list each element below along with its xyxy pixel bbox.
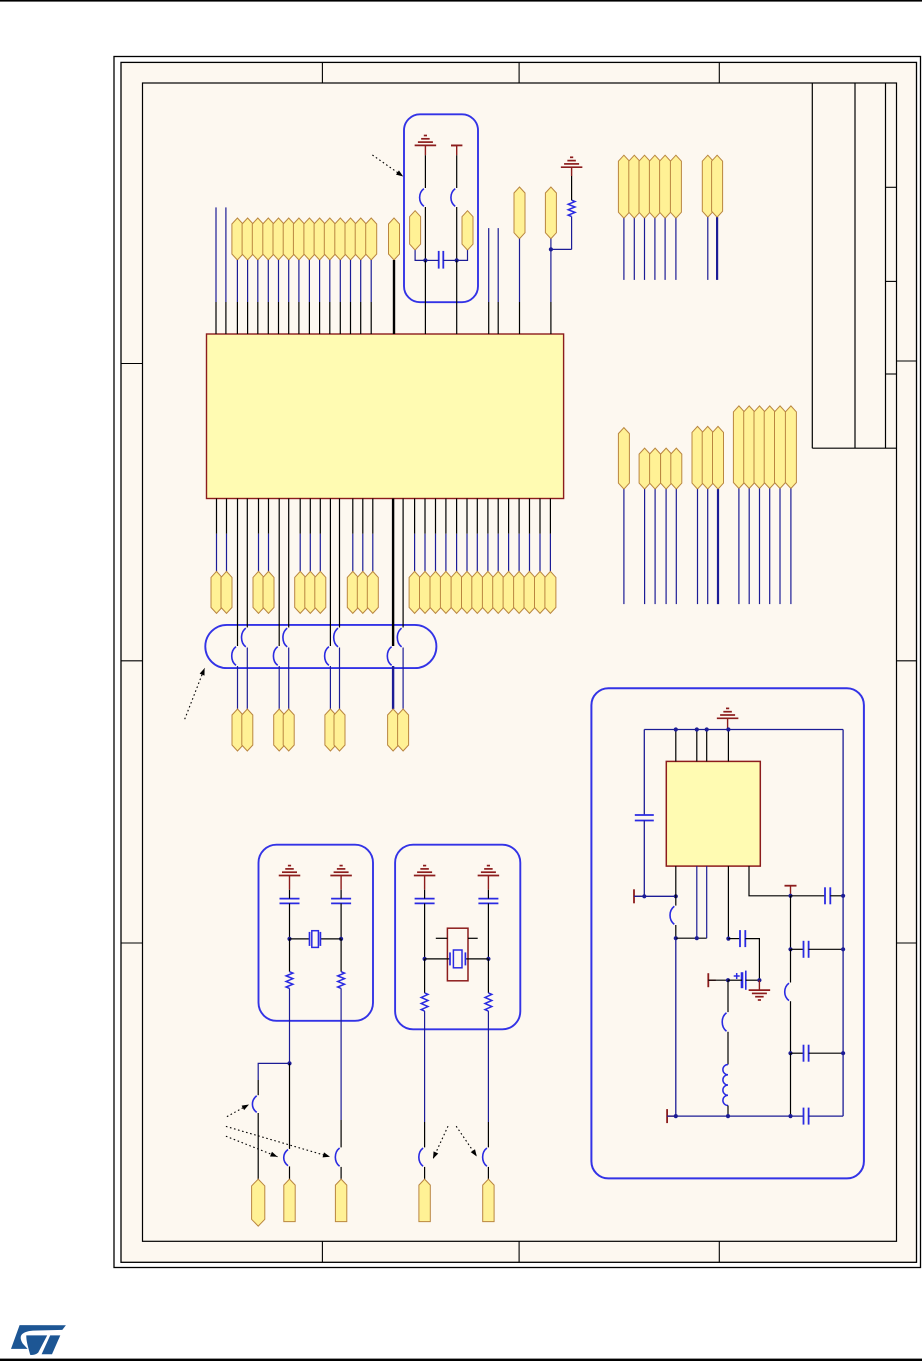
wire cap to junction LSE R [340,890,342,899]
wire jumper col1 right lower [246,648,248,710]
wire JTDI_3 [665,489,667,604]
power tap left of C4 [707,973,709,987]
wire left branch lower [643,821,645,897]
wire bottom pin 11 [414,499,416,534]
dotted annotation arrow A [227,1105,249,1117]
wire OSC32 right pin to MCU [456,260,458,334]
power flag VDD_2 [629,155,640,218]
jumper group oval [205,625,436,668]
wire PD_6 [790,489,792,605]
junction OSC32 left [423,258,427,262]
port flag P6 (top row) [293,218,304,260]
solder bridge arc OSC_IN stub [252,1096,256,1113]
wire JTDI_4 [675,489,677,604]
wire bottom pin 19 [497,499,499,534]
wire bottom pin 10 [372,499,374,534]
port flag OSC2 [483,1179,494,1222]
crystal Y2 case stubs [436,937,448,939]
junction right column 3 [788,1051,792,1055]
port flag OSC_IN [252,1179,265,1226]
ground LSE R [330,875,352,877]
ST logo [11,1325,66,1355]
port flag P2 (top row) [252,218,263,260]
outer border frame [114,57,921,1268]
port flag P13 (top row) [366,218,377,260]
wire SB1 to junction [424,207,426,260]
junction LSE L [287,937,291,941]
wire jumper col2 left lower [278,666,280,709]
solder bridge arc right column [785,983,789,1001]
port flag P3 (top row) [263,218,274,260]
bottom zone ticks [321,1241,323,1262]
port flag VDD33 [545,187,556,239]
net flag PD_5 [775,406,786,489]
wire jumper col2 right upper [288,499,290,628]
wire bottom pin 6 [309,499,311,534]
wire bottom pin 21 [518,499,520,534]
title block column divider 1 [854,83,856,448]
power tap bottom left [666,1109,668,1123]
port flag PC15 [335,1179,346,1222]
plus sign of C4 [734,975,740,977]
wire C6 to right bus [809,948,844,950]
wire pin top 11 [350,260,352,302]
port flag jumper col2 left [274,709,285,751]
wire jumper col3 left upper [329,499,331,647]
junction HSE R [486,957,490,961]
port flag bottom 7 [315,571,326,613]
solder bridge arc pin1 [670,906,674,924]
wire Y2 row right [465,958,488,960]
port flag bottom 16 [462,571,473,613]
wire pin top 10 [339,260,341,302]
wire jumper col2 right lower [288,648,290,710]
wire SB pin1 to node row [675,925,677,938]
wire power to C4 junction [708,979,728,981]
resistor LSE right branch [340,939,342,972]
wire C5 to right bus [830,895,843,897]
wire C1 right to junction [443,259,456,261]
port flag bottom 11 [409,571,420,613]
wire PE2 (bare) [215,207,217,302]
wire PD_3 [759,489,761,605]
port flag P0 (top row) [232,218,243,260]
wire USART_2 [707,489,709,604]
wire R1 to ground [571,176,573,200]
capacitor LSE L [280,898,300,900]
junction C4 left [726,978,730,982]
net flag PD_4 [764,406,775,489]
wire bottom pin 1 [216,499,218,534]
solder bridge arc col1 left [232,647,236,666]
port flag OSC32_OUT [462,211,473,250]
resistor HSE left branch [424,959,426,993]
junction bottom bus 2 [726,1114,730,1118]
dotted annotation arrow E [456,1126,477,1156]
wire C3 to corner [745,939,759,981]
port flag OSC1 [419,1179,430,1222]
wire OSC32 left pin to MCU [424,260,426,334]
wire bottom pin 13 [435,499,437,534]
capacitor C2 left branch [635,814,654,816]
wire HSE left branch down [424,1011,426,1122]
wire pin top 4 [278,260,280,302]
wire SB to flag OSC_IN [257,1113,259,1179]
wire to C7 [791,1052,804,1054]
port flag P4 (top row) [273,218,284,260]
wire VDD_2 [633,218,635,280]
junction on VDD33 [549,247,553,251]
solder bridge arc col4 right [397,628,401,647]
bottom bus wire [667,1115,803,1117]
wire HSE right branch down [487,1011,489,1122]
power flag VDD_6 [670,155,681,218]
wire jumper col4 right upper [402,499,404,628]
inner drawing border [143,83,897,1241]
wire VDD_4 [654,218,656,280]
port flag OSC32_IN [410,211,421,250]
power flag VDD_1 [618,155,629,218]
capacitor C5 [824,887,826,904]
port flag PC14 [284,1179,295,1222]
wire U2 pin2 down [696,866,698,938]
junction right column top [788,894,792,898]
crystal Y1 body [312,931,319,948]
wire bottom pin 14 [445,499,447,534]
port flag P9 (top row) [324,218,335,260]
wire ground stem LSE L [289,876,291,890]
net flag BOOT0 [618,428,629,490]
wire VDD_3 [644,218,646,280]
wire pin top 3 [267,260,269,302]
port flag bottom 8 [347,571,358,613]
wire node row horizontal [676,937,707,939]
power tap T in OSC32 box [451,144,457,146]
wire power stem OSC32 [456,145,458,155]
solder bridge arc SB1 [420,189,424,207]
port flag jumper col1 right [242,709,253,751]
dotted annotation arrow to OSC32 box [372,155,403,177]
wire JTDI_2 [654,489,656,604]
capacitor C6 [803,941,805,958]
junction node row mid [695,936,699,940]
port flag bottom 23 [535,571,546,613]
solder bridge arc SB2 [451,189,455,207]
title block column divider 2 [885,83,887,448]
port flag bottom 13 [430,571,441,613]
wire NRST (thick) [393,260,395,334]
wire PD_5 [779,489,781,605]
dotted annotation arrow D [433,1126,448,1159]
wire VSS_1 [707,217,709,280]
wire JTDI_1 [644,489,646,604]
wire jumper col4 left lower [392,666,394,709]
top bus wire [644,729,843,731]
net flag USART_1 [692,426,703,489]
port flag jumper col3 right [334,709,345,751]
net flag JTDI_2 [650,448,661,489]
capacitor C3 [739,930,741,947]
wire bottom pin 8 [352,499,354,534]
capacitor HSE R [478,898,498,900]
wire C4 node down to SB [727,980,729,1012]
junction node row left [674,936,678,940]
port flag bottom 17 [472,571,483,613]
junction power row 1 [642,894,646,898]
sheet cream background [121,62,917,1262]
wire pin4 to C3 [728,938,740,940]
junction power row 2 [674,894,678,898]
top bus junctions [674,727,678,731]
crystal Y2 inner body [453,950,462,968]
wire crystal row LSE right [320,938,341,940]
port flag jumper col4 left [388,709,399,751]
wire pin top 8 [319,260,321,302]
wire bottom pin 2 [226,499,228,534]
wire bottom pin 9 [362,499,364,534]
solder bridge arc col1 right [242,628,246,647]
wire VBAT [519,239,521,302]
wire VDD_6 [675,218,677,280]
port flag bottom 2 [221,571,232,613]
dotted annotation arrow B [226,1126,330,1156]
net flag JTDI_3 [661,448,672,489]
wire jumper col2 left upper [278,499,280,647]
wire bottom pin 3 [258,499,260,534]
wire SB to flag PC14 [289,1166,291,1179]
footer rule [0,1359,922,1361]
net flag PD_1 [733,406,744,489]
capacitor C8 on bottom bus [803,1108,805,1125]
wire SB2 to junction [456,207,458,260]
wire pin top 7 [308,260,310,302]
wire left long vertical [675,938,677,1116]
wire right bus [842,730,844,1117]
wire right column down 4 [790,1053,792,1116]
junction right bus top [841,894,845,898]
wire USART_3 [717,489,719,604]
wire VSSA (bare) [497,228,499,302]
right zone ticks [897,360,917,362]
port flag P5 (top row) [283,218,294,260]
power flag VSS_1 [702,155,713,217]
wire VDD_5 [664,218,666,280]
regulator IC U2 [666,761,760,866]
port flag bottom 24 [545,571,556,613]
port flag bottom 10 [367,571,378,613]
port flag bottom 19 [493,571,504,613]
wire bottom pin 18 [487,499,489,534]
port flag P10 (top row) [335,218,346,260]
wire LSE right to SB [340,1120,342,1147]
wire power row [634,895,676,897]
wire ground stem HSE L [424,876,426,890]
wire pin top 2 [257,260,259,302]
solder bridge arc col2 right [283,628,287,647]
middle border frame [121,62,917,1262]
dotted annotation arrow C [226,1136,278,1157]
wire pin top 6 [298,260,300,302]
wire bottom pin 16 [466,499,468,534]
wire junction to C1 left [425,259,438,261]
ground below C4 [758,980,760,990]
wire bottom pin 5 [299,499,301,534]
solder bridge arc PC14 [284,1150,288,1166]
U2 top pin wires [675,730,677,762]
port flag bottom 21 [514,571,525,613]
wire PD_1 [738,489,740,605]
port flag P12 (top row) [355,218,366,260]
junction HSE L [423,957,427,961]
wire bottom pin 22 [529,499,531,534]
junction bottom bus 1 [674,1114,678,1118]
wire junction to resistor R1 [551,248,572,250]
wire SB to inductor [727,1032,729,1065]
resistor R1 [568,200,575,216]
port flag bottom 1 [211,571,222,613]
port flag P7 (top row) [304,218,315,260]
junction right bus 3 [841,1051,845,1055]
wire power tap stem [790,886,792,896]
wire pin top 13 [370,260,372,302]
wire Y2 row left [425,958,450,960]
port flag bottom 12 [420,571,431,613]
top zone ticks [321,62,323,83]
wire right column down 2 [790,949,792,982]
wire bottom pin 15 [456,499,458,534]
wire SB to flag OSC2 [487,1167,489,1179]
wire pin top 0 [236,260,238,302]
port flag bottom 22 [524,571,535,613]
wire U2 pin4 down [727,866,729,939]
net flag PD_2 [744,406,755,489]
wire right column down 3 [790,1001,792,1053]
port flag VBAT [514,187,525,239]
wire ground stem U2 [727,718,729,729]
junction LSE R [339,937,343,941]
junction bottom bus 3 [788,1114,792,1118]
solder bridge arc col4 left [387,647,391,666]
wire jumper col1 left upper [237,499,239,647]
wire ground stem OSC32 [424,145,426,155]
port flag P11 (top row) [345,218,356,260]
left zone ticks [121,363,143,365]
wire OSC32_OUT to node [457,250,468,260]
port flag bottom 15 [451,571,462,613]
dotted annotation arrow to jumper oval [185,668,205,719]
solder bridge arc inductor branch [722,1013,726,1031]
solder bridge arc PC15 [335,1148,339,1166]
wire jumper col1 left lower [237,666,239,709]
title block row dividers [886,186,897,188]
wire left branch upper [643,730,645,816]
wire crystal row LSE left [290,938,310,940]
wire pin top 9 [329,260,331,302]
junction pin4 cap [726,937,730,941]
wire jumper col3 right lower [339,648,341,710]
port flag bottom 6 [305,571,316,613]
inductor L1 [723,1065,728,1106]
wire jumper col4 left upper [392,499,394,647]
resistor HSE right branch [487,959,489,993]
wire cap to junction HSE L [424,890,426,899]
port flag P1 (top row) [242,218,253,260]
wire LSE branch to left stub [258,1063,289,1080]
power tap VDD left [633,889,635,903]
wire VDDA (bare) [488,228,490,302]
junction below LSE [287,1061,291,1065]
capacitor LSE R [331,898,351,900]
wire bottom pin 20 [508,499,510,534]
wire PD_2 [748,489,750,605]
solder bridge arc col3 left [325,647,329,666]
wire left stub to SB [257,1080,259,1095]
wire bottom pin 7 [319,499,321,534]
wire LSE left to SB [289,1063,291,1149]
net flag USART_2 [702,426,713,489]
wire bottom pin 4 [268,499,270,534]
header rule [0,0,922,2]
wire to C6 [791,948,804,950]
LSE crystal group box [259,845,374,1021]
wire jumper col3 left lower [329,666,331,709]
port flag NRST [389,218,400,260]
HSE crystal group box [395,845,520,1030]
wire bottom pin 17 [476,499,478,534]
port flag jumper col3 left [325,709,336,751]
wire VDD_1 [623,218,625,280]
port flag jumper col1 left [232,709,243,751]
wire right column to C5 [791,895,826,897]
capacitor HSE L [415,898,435,900]
regulator group box [591,688,864,1178]
power flag VDD_4 [649,155,660,218]
wire U2 pin1 down [675,866,677,906]
wire pin top 1 [247,260,249,302]
junction C4 right [757,978,761,982]
capacitor C7 [803,1045,805,1062]
solder bridge arc OSC2 [483,1148,487,1166]
wire bottom pin 24 [549,499,551,534]
wire PE3 (bare) [225,207,227,302]
wire VSS_2 (thick) [716,217,718,280]
solder bridge arc col3 right [334,628,338,647]
wire USART_1 [697,489,699,604]
port flag bottom 20 [503,571,514,613]
crystal Y2 can body [447,928,468,981]
wire U2 pin3 down [706,866,708,938]
port flag bottom 14 [440,571,451,613]
wire cap to junction LSE L [289,890,291,899]
polarized capacitor C4 [741,972,744,988]
port flag jumper col2 right [283,709,294,751]
port flag bottom 18 [482,571,493,613]
ground above R1 [561,166,583,168]
wire bottom pin 12 [424,499,426,534]
wire pin top 5 [288,260,290,302]
port flag bottom 3 [253,571,264,613]
resistor LSE left branch [289,939,291,972]
title block outline [811,83,813,448]
wire cap to junction HSE R [487,890,489,899]
net flag USART_3 [713,426,724,489]
wire OSC32_IN to node [415,250,425,260]
crystal Y2 plates [449,952,451,965]
wire bottom bus right segment [809,1115,844,1117]
OSC32 group box [404,114,478,302]
wire SB to flag PC15 [340,1167,342,1179]
port flag jumper col4 right [398,709,409,751]
